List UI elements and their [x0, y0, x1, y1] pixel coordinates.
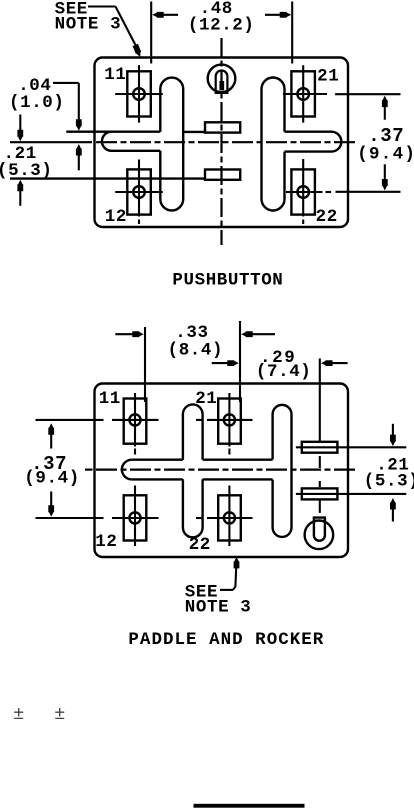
upper center rectangle [205, 122, 240, 132]
svg-text:PUSHBUTTON: PUSHBUTTON [172, 271, 283, 291]
dimension .04 up arrow [76, 144, 82, 170]
terminal 22 screw circle [224, 512, 235, 523]
svg-text:11: 11 [99, 389, 121, 409]
terminal 21 rectangle [218, 399, 241, 444]
svg-text:(9.4): (9.4) [357, 144, 414, 164]
svg-text:±: ± [14, 702, 25, 723]
terminal 11 screw circle [133, 88, 145, 100]
terminal 22 crosshair vertical [228, 486, 230, 547]
dimension .48 right arrow [265, 12, 291, 18]
terminal 11 crosshair horizontal (with .37 extension) [36, 419, 159, 421]
horizontal slot top edge [132, 459, 183, 461]
terminal 11 crosshair horizontal [115, 93, 163, 95]
pushbutton plunger circle [208, 65, 236, 93]
terminal 12 rectangle [127, 169, 151, 214]
dimension .29 right arrow [321, 360, 348, 366]
terminal 12 screw circle [133, 186, 145, 198]
note leader (see note 3, top) [88, 7, 141, 58]
terminal 21 screw circle [297, 88, 309, 100]
dimension .21 down arrow (right) [390, 424, 396, 446]
svg-text:12: 12 [105, 207, 127, 227]
keyway U bar [314, 518, 325, 541]
terminal 11 rectangle [127, 71, 151, 116]
note leader (see note 3, bottom) [220, 557, 239, 590]
terminal 22 crosshair horizontal [286, 191, 331, 193]
left horizontal slot top edge (with .04 extension) [66, 130, 160, 132]
dimension .37 down arrow (left) [48, 492, 54, 517]
bottom separator bar [194, 804, 305, 808]
dimension .48 right extension line [291, 2, 293, 64]
terminal 11 screw circle [129, 414, 140, 425]
terminal 21 screw circle [224, 414, 235, 425]
plunger keyway arch [216, 70, 228, 92]
slot vertical reference line (.29 extension) [319, 359, 321, 442]
horizontal slot rounded end [122, 460, 132, 480]
svg-text:(5.3): (5.3) [0, 161, 53, 181]
dimension .04 leader and down arrow [53, 83, 82, 131]
right lower mounting slot [302, 488, 338, 499]
svg-text:21: 21 [195, 389, 217, 409]
terminal 12 crosshair vertical [134, 486, 136, 547]
dimension .48 left extension line [150, 2, 152, 64]
left horizontal slot bottom edge [112, 150, 161, 152]
horizontal slot middle top edge [203, 459, 273, 461]
terminal 11 crosshair vertical [134, 393, 136, 455]
dimension .37 down arrow [382, 164, 388, 190]
terminal 22 rectangle [218, 495, 241, 540]
dimension .37 up arrow (left) [48, 423, 54, 448]
dimension .21 up arrow (right) [390, 498, 396, 522]
right vertical slot [273, 405, 292, 537]
terminal 21 crosshair vertical [302, 65, 304, 123]
right upper slot centerline (with .21 extension) [296, 446, 406, 448]
dimension .21 down arrow [17, 115, 23, 142]
svg-text:(5.3): (5.3) [364, 471, 414, 491]
left vertical slot upper half [183, 404, 203, 459]
svg-text:21: 21 [317, 67, 339, 87]
left vertical slot lower half [183, 479, 203, 537]
terminal 22 rectangle [291, 169, 315, 214]
terminal 21 crosshair horizontal [283, 93, 327, 95]
horizontal centerline [10, 141, 358, 143]
dimension .33 left arrow [115, 331, 144, 337]
svg-text:(8.4): (8.4) [168, 340, 224, 360]
switch body (pushbutton) [95, 58, 349, 228]
terminal 11 crosshair vertical [138, 65, 140, 123]
right lower slot centerline (with .21 extension) [296, 493, 406, 495]
svg-text:11: 11 [104, 65, 126, 85]
right vertical slot [262, 78, 285, 211]
horizontal slot middle bottom edge [203, 478, 273, 480]
terminal 21 rectangle [291, 71, 315, 116]
right upper mounting slot [302, 442, 338, 453]
dimension .37 bottom extension line [336, 191, 401, 193]
left horizontal slot rounded end [102, 132, 112, 151]
dimension .48 left arrow [152, 12, 178, 18]
right horizontal slot [285, 132, 342, 152]
terminal 22 screw circle [297, 186, 309, 198]
svg-text:22: 22 [189, 535, 211, 555]
terminal 12 crosshair vertical [138, 160, 140, 225]
terminal 21 crosshair vertical [228, 393, 230, 455]
dimension .33/.29 middle extension line [239, 321, 241, 402]
lower reference line (.21 extension through body) [10, 177, 206, 179]
svg-text:22: 22 [316, 207, 338, 227]
svg-text:(9.4): (9.4) [24, 468, 80, 488]
left vertical slot [160, 78, 183, 211]
dimension .37 up arrow [382, 96, 388, 120]
terminal 12 screw circle [129, 512, 140, 523]
horizontal slot bottom edge [132, 478, 183, 480]
horizontal centerline (rocker) [85, 469, 358, 471]
dimension .33 left extension line [144, 327, 146, 402]
svg-text:NOTE 3: NOTE 3 [55, 15, 122, 35]
svg-text:12: 12 [95, 532, 117, 552]
lower center rectangle [205, 170, 240, 180]
switch body (paddle and rocker) [95, 384, 349, 558]
terminal 11 rectangle [124, 399, 147, 444]
vertical centerline [220, 38, 222, 245]
dimension .21 up arrow [17, 180, 23, 206]
svg-text:(12.2): (12.2) [188, 15, 255, 35]
slot vertical centerline dashes [319, 456, 321, 513]
dimension .33 right arrow [241, 331, 275, 337]
terminal 22 crosshair horizontal [196, 517, 253, 519]
dimension .37 top extension line [335, 93, 400, 95]
terminal 12 crosshair horizontal (with .37 extension) [36, 517, 159, 519]
svg-text:PADDLE AND ROCKER: PADDLE AND ROCKER [128, 630, 324, 650]
plunger inner slot [220, 82, 223, 89]
terminal 12 rectangle [124, 495, 147, 540]
svg-text:±: ± [55, 702, 66, 723]
terminal 21 crosshair horizontal [196, 419, 253, 421]
dimension .29 left arrow [212, 360, 239, 366]
keyway circle (bottom right) [305, 521, 334, 550]
svg-text:(7.4): (7.4) [256, 362, 312, 382]
upper center stub [183, 131, 206, 133]
terminal 22 crosshair vertical [302, 159, 304, 224]
svg-text:(1.0): (1.0) [9, 93, 65, 113]
svg-text:NOTE 3: NOTE 3 [185, 597, 252, 617]
terminal 12 crosshair horizontal [115, 191, 163, 193]
